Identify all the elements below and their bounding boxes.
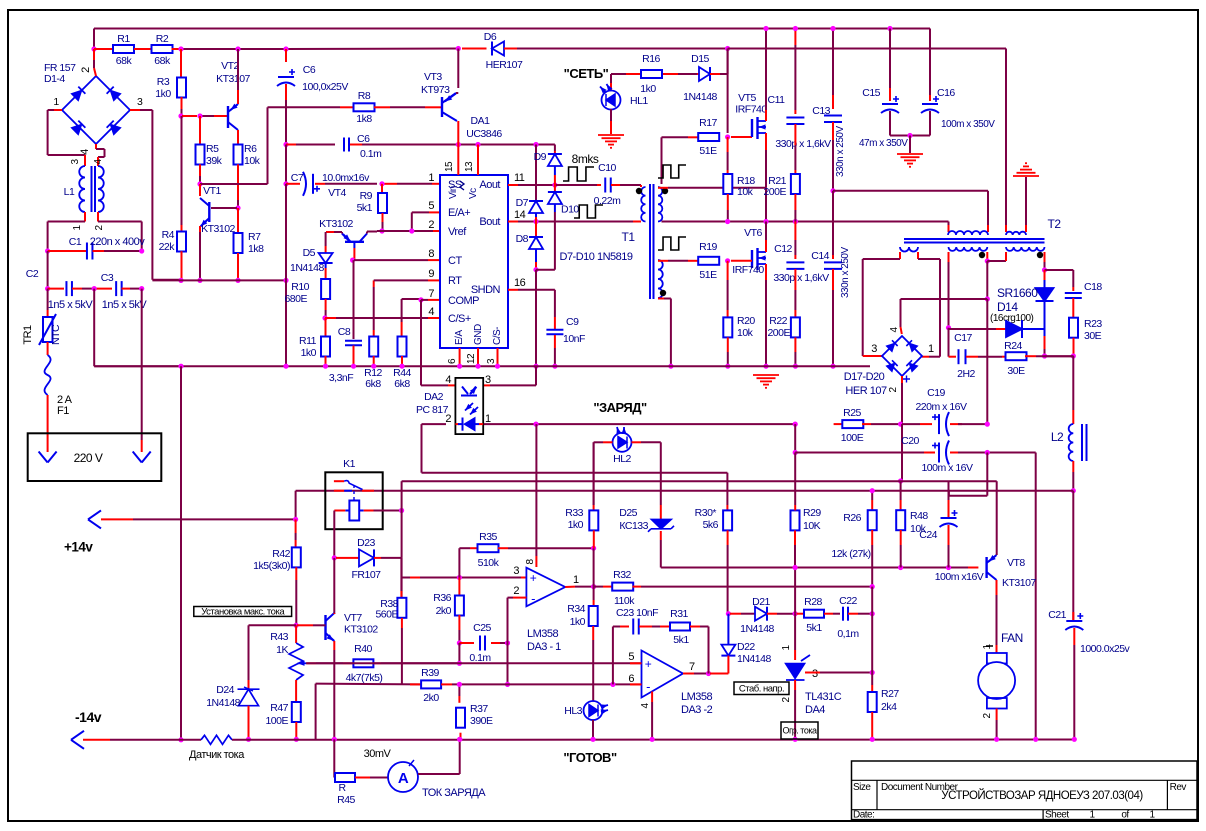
svg-text:390E: 390E (470, 715, 493, 727)
svg-text:VT2: VT2 (221, 60, 239, 72)
R43 wiper (298, 661, 305, 666)
svg-text:TR1: TR1 (22, 325, 34, 345)
node y221 x727 (725, 219, 730, 224)
svg-text:CT: CT (448, 255, 462, 267)
svg-text:L1: L1 (64, 186, 75, 198)
svg-text:C6: C6 (357, 133, 370, 145)
ground primary (753, 374, 779, 376)
node COMP (418, 297, 423, 302)
charge rail y424 (484, 423, 537, 425)
svg-text:D7: D7 (516, 197, 529, 209)
wire x401 pin3 to R38 (400, 558, 402, 591)
wire D22 bottom (727, 656, 729, 674)
node y144 x478 (475, 142, 480, 147)
resistor R32 (612, 583, 633, 591)
diode D14 bottom (996, 328, 1006, 330)
node y144 x458 (456, 142, 461, 147)
resistor R3 (177, 78, 186, 98)
resistor R17 (698, 133, 719, 141)
wire source return to T2 w1 left (948, 225, 950, 232)
wire VT2 collector down (237, 130, 239, 145)
wire pin1 stub (286, 183, 300, 185)
capacitor C8 (345, 340, 362, 342)
wire R4 bottom (181, 251, 183, 280)
node Vref x382 (379, 228, 384, 233)
wire left column C1 to C2wire (47, 251, 49, 289)
T1 phase dot sec top (662, 188, 668, 194)
svg-text:COMP: COMP (448, 295, 479, 307)
diode D14 top SR1660 (1044, 270, 1046, 280)
svg-text:HER107: HER107 (486, 59, 523, 71)
wire pin8 up (535, 556, 537, 567)
node pin11 x555 (552, 182, 557, 187)
svg-text:+: + (530, 571, 537, 585)
node y144 x536 (533, 142, 538, 147)
resistor R38 (397, 598, 406, 618)
svg-text:D8: D8 (516, 233, 529, 245)
node bus x459 (457, 364, 462, 369)
svg-text:VT6: VT6 (744, 227, 762, 239)
svg-text:4: 4 (428, 306, 434, 318)
wire x902 col (901, 424, 903, 481)
resistor R18 (727, 137, 729, 152)
wire VT6 drain (765, 240, 767, 252)
svg-text:5: 5 (628, 651, 634, 663)
thermistor TR1 (47, 289, 49, 310)
svg-text:D14: D14 (997, 300, 1018, 314)
resistor R19 (698, 257, 719, 265)
svg-text:D1-4: D1-4 (44, 73, 65, 85)
svg-text:3: 3 (871, 343, 877, 355)
wire F1 to 220V box (47, 395, 49, 452)
node R20 bus (725, 364, 730, 369)
node rail49 x458 (456, 46, 461, 51)
resistor R31 (670, 623, 690, 631)
resistor R24 (1006, 352, 1027, 360)
svg-text:2k0: 2k0 (436, 605, 452, 617)
svg-text:R4: R4 (162, 229, 175, 241)
svg-text:200E: 200E (763, 186, 786, 198)
svg-text:VT1: VT1 (203, 185, 221, 197)
node x795 y424 (793, 422, 798, 427)
wire CT (354, 259, 428, 261)
svg-text:T1: T1 (621, 230, 635, 244)
node x555 bus (552, 364, 557, 369)
svg-text:D25: D25 (619, 507, 637, 519)
wire D14top bottom (1044, 301, 1046, 329)
node D21 right (793, 611, 798, 616)
wire R47 bottom (295, 722, 297, 739)
wire C13-C14 (832, 191, 834, 255)
wire C22 right (848, 613, 858, 615)
svg-text:Rev: Rev (1170, 782, 1187, 793)
wire y280 run (152, 279, 286, 281)
node bus x286 (283, 364, 288, 369)
wire C13node to T2 primary (833, 190, 988, 192)
svg-text:C23 10nF: C23 10nF (616, 607, 658, 619)
svg-text:5k1: 5k1 (806, 622, 822, 634)
wire T1 secbot top terminal (658, 260, 668, 262)
resistor R26 column (871, 491, 873, 500)
svg-text:10k: 10k (737, 186, 754, 198)
svg-text:D7-D10 1N5819: D7-D10 1N5819 (560, 251, 633, 263)
svg-text:51E: 51E (699, 145, 717, 157)
wire pin6 stub (630, 683, 642, 685)
wire secB col to C17 (948, 328, 950, 357)
svg-text:Sheet: Sheet (1045, 810, 1069, 821)
node D23 left (332, 555, 337, 560)
node D21 left (726, 611, 731, 616)
svg-text:"ГОТОВ": "ГОТОВ" (563, 750, 617, 765)
wire VT8 emitter (996, 481, 998, 491)
led HL3 (584, 701, 603, 720)
wire D10 jog (536, 269, 555, 271)
diode D7 (529, 201, 543, 213)
svg-text:1k8: 1k8 (356, 113, 372, 125)
wire VT8 collector (996, 580, 998, 595)
svg-text:D17-D20: D17-D20 (844, 371, 885, 383)
svg-text:10K: 10K (803, 520, 821, 532)
svg-text:R16: R16 (642, 53, 660, 65)
wire secC right (1044, 252, 1046, 262)
-14v rail right (232, 739, 1074, 741)
-14v rail (83, 739, 110, 741)
svg-text:Vc: Vc (468, 188, 479, 199)
svg-text:IRF740: IRF740 (732, 264, 764, 276)
node rail49 x181 (178, 46, 183, 51)
svg-text:SHDN: SHDN (471, 284, 501, 296)
wire C20 to FAN col (1035, 453, 1037, 740)
zener D25 KC133 (660, 491, 662, 505)
svg-text:Датчик тока: Датчик тока (189, 749, 245, 761)
node x181 minus rail (178, 737, 183, 742)
svg-text:5: 5 (428, 200, 434, 212)
svg-text:1: 1 (428, 172, 434, 184)
node R26 top (870, 488, 875, 493)
ammeter A (388, 762, 418, 792)
svg-text:HER 107: HER 107 (845, 385, 887, 397)
node fan rail (994, 737, 999, 742)
node rail49 junction x94 (91, 46, 96, 51)
svg-text:2: 2 (513, 585, 519, 597)
title block row line 1 (852, 779, 1198, 781)
svg-text:KT3102: KT3102 (319, 218, 353, 230)
svg-text:1: 1 (485, 413, 491, 425)
resistor R10 (321, 279, 330, 299)
node R26 R32 (870, 584, 875, 589)
wire D5 to R10 (325, 263, 327, 268)
svg-text:VT3: VT3 (424, 71, 442, 83)
resistor R28 (797, 613, 805, 615)
svg-text:R40: R40 (354, 643, 372, 655)
svg-text:200E: 200E (767, 327, 790, 339)
wire bridge1 to secA col (922, 356, 929, 358)
mosfet VT5 IRF740 (751, 119, 753, 137)
resistor R40 (353, 659, 373, 667)
resistor R35 (478, 544, 499, 552)
wire rail28 corner to C16 (929, 29, 931, 96)
ground HL1 (598, 134, 624, 136)
wire y299 bridge pin4 (901, 298, 988, 300)
svg-text:Aout: Aout (479, 179, 500, 191)
resistor R12 on RT column (373, 280, 375, 287)
title block divider rev (1166, 780, 1168, 809)
resistor R42 (295, 519, 297, 533)
wire COMP pin7 (421, 299, 428, 301)
svg-text:R28: R28 (804, 596, 822, 608)
bridge2 plus mark (903, 376, 910, 383)
-14v arrow (71, 731, 84, 749)
wire R38 bottom (401, 618, 403, 628)
node x286 y144 (283, 142, 288, 147)
capacitor C14 (824, 261, 842, 263)
svg-text:Огр. тока: Огр. тока (783, 726, 817, 736)
wire R26 bottom (871, 530, 873, 545)
node pin5 corner (409, 228, 414, 233)
node x536 y424 (533, 422, 538, 427)
svg-text:14: 14 (514, 209, 526, 221)
node coil right (399, 508, 404, 513)
waveform glyph D (658, 237, 686, 250)
wire VT5 drain (765, 110, 767, 121)
node C15C16 mid (907, 133, 912, 138)
wire D21 right (767, 613, 777, 615)
svg-text:R27: R27 (881, 688, 899, 700)
svg-text:330n x 250V: 330n x 250V (840, 247, 851, 298)
svg-text:R20: R20 (737, 315, 755, 327)
capacitor C18 (1072, 287, 1074, 291)
wire pin7 to D22 (710, 673, 728, 675)
T1 phase dot sec bottom (660, 290, 666, 296)
node C22 x872 (870, 611, 875, 616)
wire right column down to 220V box (141, 289, 143, 440)
svg-text:LM358: LM358 (681, 691, 713, 703)
svg-text:1N4148: 1N4148 (683, 91, 717, 103)
wire L2 bottom (1072, 461, 1074, 472)
svg-text:HL3: HL3 (564, 705, 582, 717)
svg-text:F1: F1 (57, 405, 69, 417)
capacitor C25 (479, 636, 481, 651)
svg-text:C/S+: C/S+ (448, 313, 471, 325)
node R9 top (379, 181, 384, 186)
wire x536 to DA2 pin3 (535, 366, 537, 385)
wire x421 down to DA2 (420, 300, 422, 386)
diode D21 1N4148 (755, 607, 767, 621)
svg-text:R23: R23 (1084, 318, 1102, 330)
svg-text:C8: C8 (338, 326, 351, 338)
svg-text:C12: C12 (774, 243, 792, 255)
node R27 rail (870, 737, 875, 742)
node y221 x795 (793, 219, 798, 224)
mosfet VT6 IRF740 (751, 250, 753, 268)
diode D9 (548, 154, 562, 166)
svg-text:R31: R31 (670, 608, 688, 620)
wire rail49 to T2w2 (728, 48, 1006, 50)
wire pin5 EA+ corner (429, 211, 440, 213)
svg-text:1000.0x25v: 1000.0x25v (1080, 643, 1131, 655)
svg-text:KT3107: KT3107 (216, 73, 250, 85)
wire rail49 to x727 (517, 48, 728, 50)
rail y491 (296, 490, 1074, 492)
resistor R33 (593, 442, 595, 460)
wire C6b y144 run (286, 144, 296, 146)
resistor R22 (794, 269, 796, 290)
node C20col rail (1033, 737, 1038, 742)
wire pin4 down (651, 692, 653, 703)
svg-text:Vref: Vref (448, 226, 467, 238)
wire L2 col down (1072, 491, 1074, 620)
svg-text:16: 16 (514, 277, 526, 289)
svg-text:5k1: 5k1 (673, 634, 689, 646)
wire C2-C3 (72, 288, 82, 290)
wire bridge bottom jog (95, 144, 97, 149)
node pin1 x593 (591, 584, 596, 589)
svg-text:11: 11 (514, 172, 525, 184)
svg-text:KT3102: KT3102 (201, 223, 235, 235)
svg-text:12: 12 (466, 353, 477, 364)
svg-text:HL1: HL1 (630, 95, 648, 107)
capacitor C23 (632, 619, 634, 635)
wire R43 bottom to R47 (295, 680, 297, 690)
+14v arrow (88, 510, 101, 528)
220V right arrow (133, 452, 151, 463)
svg-text:3: 3 (812, 668, 818, 680)
svg-text:КС133: КС133 (619, 520, 648, 532)
svg-text:220m x 16V: 220m x 16V (915, 401, 967, 413)
node R19 right (725, 258, 730, 263)
node VT2 base wire x181 (178, 113, 183, 118)
svg-text:C7: C7 (291, 172, 304, 184)
wire HL1 bottom (610, 109, 612, 121)
wire R3 bottom to base node (181, 97, 183, 109)
wire R25 right (862, 423, 871, 425)
svg-text:K1: K1 (343, 458, 356, 470)
svg-text:IRF740: IRF740 (735, 104, 767, 116)
title block row line 2 (852, 809, 1198, 811)
wire R4 link (181, 116, 183, 225)
node R17 right (725, 134, 730, 139)
node y280 x200 (197, 278, 202, 283)
svg-text:330p x 1,6kV: 330p x 1,6kV (775, 138, 831, 150)
wire L1 winding1 bottom to C1 wire (84, 212, 86, 222)
wire C7 to R9 (315, 183, 325, 185)
node C19 left (898, 422, 903, 427)
svg-text:R24: R24 (1004, 340, 1022, 352)
node L2 out (1071, 488, 1076, 493)
svg-text:1k8: 1k8 (248, 243, 264, 255)
svg-text:6k8: 6k8 (394, 378, 410, 390)
resistor R25 (842, 420, 863, 428)
capacitor C16 (929, 95, 931, 101)
wire D21 wire (730, 613, 741, 615)
svg-text:R5: R5 (206, 143, 219, 155)
wire T2 w2 right to ground (1025, 225, 1027, 232)
wire R35 branch (458, 548, 460, 577)
wire D14 anode run (949, 328, 997, 330)
capacitor C10 (604, 178, 606, 193)
node busB x507 (505, 682, 510, 687)
resistor R37 (458, 684, 460, 696)
svg-text:C10: C10 (598, 162, 616, 174)
wire TL431 anode (794, 680, 796, 690)
svg-text:5k1: 5k1 (357, 202, 373, 214)
wire pin15 stub (457, 145, 459, 176)
wire pin3 net y577 (401, 577, 410, 579)
diode D10 (554, 185, 556, 192)
svg-text:R25: R25 (843, 407, 861, 419)
optocoupler DA2 PC817 body (455, 378, 483, 434)
node secC out (1042, 267, 1047, 272)
wire C15 C16 join (889, 111, 891, 136)
led HL1 (602, 91, 621, 110)
svg-text:DA1: DA1 (471, 115, 491, 127)
wire VT1 base to R6col (211, 207, 237, 209)
wire R5 bottom to y184 (199, 164, 201, 176)
wire C8 bottom (353, 346, 355, 367)
svg-text:68k: 68k (154, 55, 171, 67)
wire C14 bottom (832, 269, 834, 290)
resistor R47 (292, 702, 301, 722)
wire secB-secC join (987, 260, 1006, 262)
wire R23 bottom (1073, 338, 1075, 356)
resistor R2 (152, 45, 173, 53)
IC DA1 UC3846 body (440, 175, 508, 348)
wire TL431 ref (805, 672, 820, 674)
svg-text:C9: C9 (566, 316, 579, 328)
svg-text:D22: D22 (737, 641, 755, 653)
node x670 bus (668, 364, 673, 369)
svg-text:R30*: R30* (695, 507, 717, 519)
svg-text:8: 8 (428, 248, 434, 260)
node x325 y318 (322, 315, 327, 320)
bus A y663 (306, 662, 642, 664)
resistor R27 (871, 673, 873, 686)
svg-text:R47: R47 (270, 702, 288, 714)
node busA x459 (457, 661, 462, 666)
wire VT4 collector (366, 232, 368, 234)
node x536 y269 (533, 267, 538, 272)
node x536 bus (533, 364, 538, 369)
node HL3 rail (590, 737, 595, 742)
node pin7 (706, 671, 711, 676)
svg-text:0.1m: 0.1m (360, 148, 382, 160)
wire T1 sectop gate branch (661, 137, 663, 184)
diode D22 1N4148 (727, 614, 729, 645)
diode D23 FR107 (336, 557, 347, 559)
svg-text:R39: R39 (421, 667, 439, 679)
wire x872 mid (871, 587, 873, 614)
wire x507 to busB (507, 643, 509, 684)
svg-text:1N4148: 1N4148 (206, 697, 240, 709)
svg-text:+14v: +14v (64, 540, 93, 555)
T2 phase dot secC (1037, 252, 1043, 258)
svg-text:FAN: FAN (1001, 631, 1023, 645)
resistor R5 (199, 116, 201, 127)
svg-text:C19: C19 (927, 387, 945, 399)
svg-text:R42: R42 (272, 548, 290, 560)
wire C20 wire (795, 452, 924, 454)
wire T1 secbot bottom (658, 298, 664, 300)
capacitor C17 (958, 349, 960, 364)
svg-text:C1: C1 (69, 236, 82, 248)
wire C1 left (48, 250, 87, 252)
svg-text:KT3102: KT3102 (344, 624, 378, 636)
bridge rectifier D17-D20 HER107 (882, 336, 922, 376)
node C21 rail (1072, 737, 1077, 742)
svg-text:R9: R9 (360, 190, 373, 202)
resistor R30 (726, 473, 728, 505)
wire bridge left to L1 (54, 109, 62, 111)
